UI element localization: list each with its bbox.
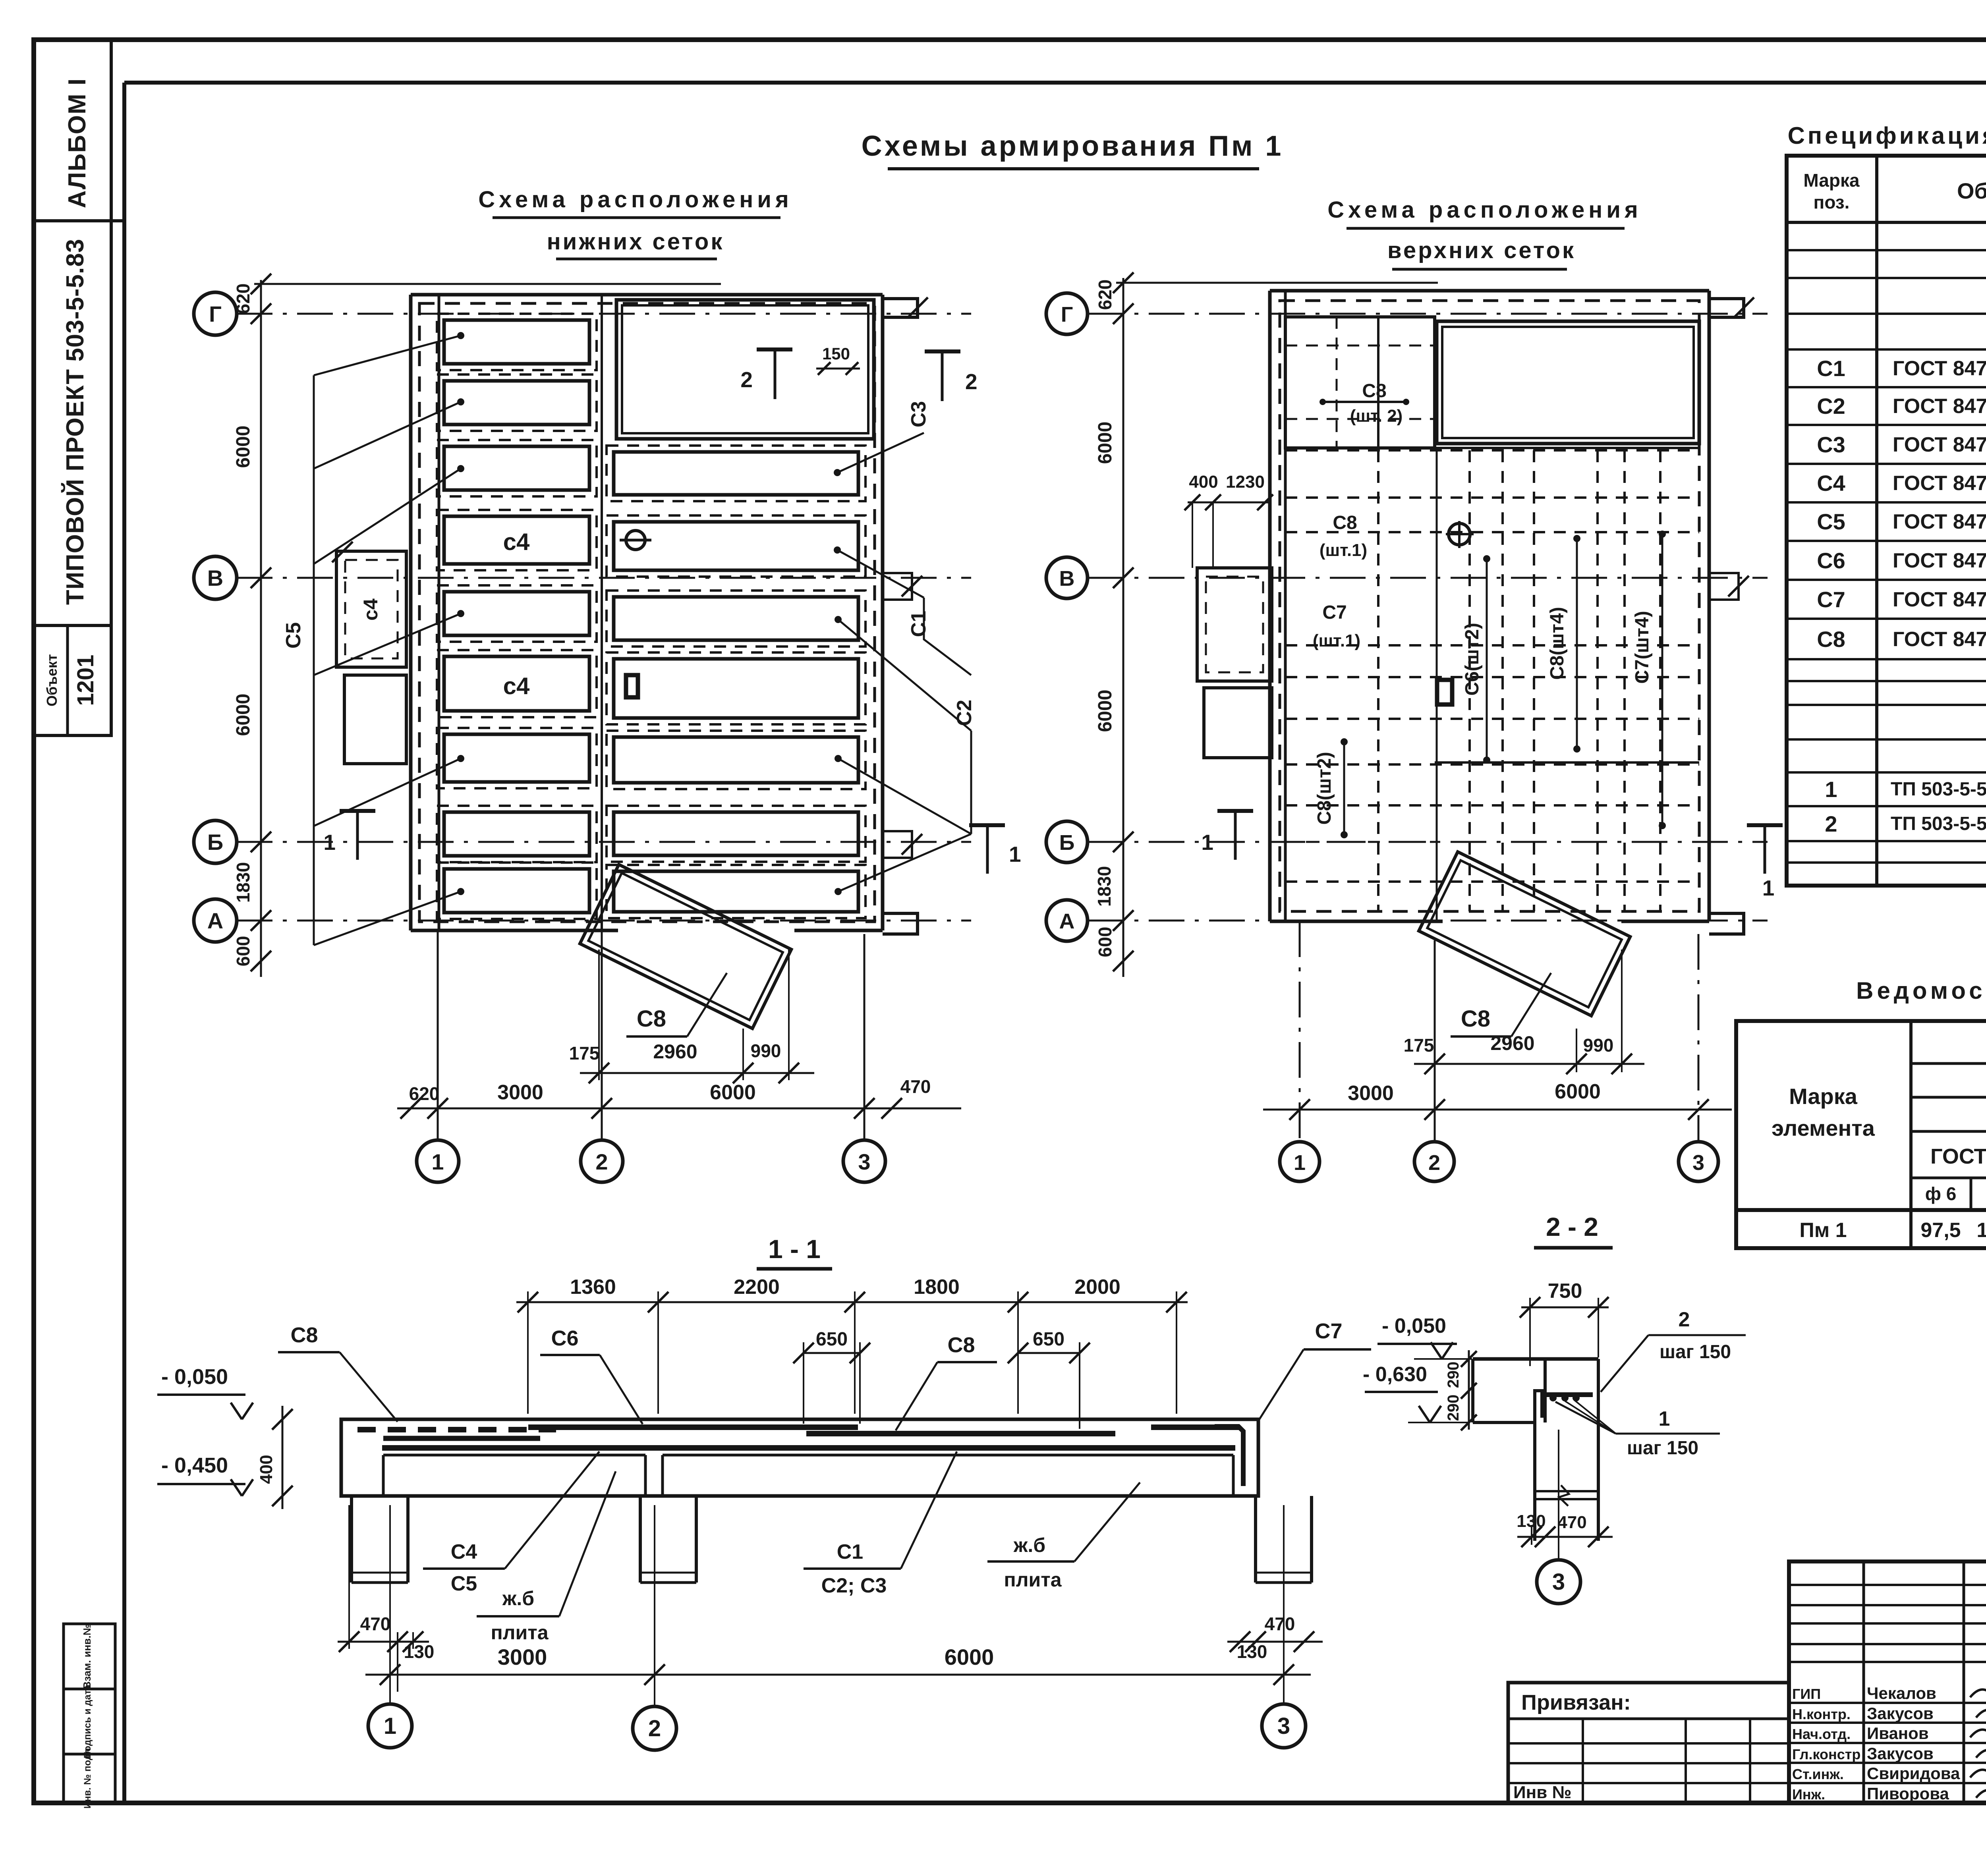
svg-text:290: 290 xyxy=(1445,1395,1462,1421)
dim 400 slab thickness xyxy=(282,1406,284,1509)
signature table columns xyxy=(1862,1561,1865,1803)
signature table bottom rows xyxy=(1789,1702,1986,1704)
right plan axis circle Б xyxy=(1046,821,1088,863)
leader C2 xyxy=(838,620,971,731)
right plan axis line Г xyxy=(1088,313,1768,315)
svg-text:С7: С7 xyxy=(1315,1319,1342,1343)
right plan axis line А xyxy=(1088,920,1768,922)
svg-text:ГИП: ГИП xyxy=(1792,1686,1821,1702)
divider album box xyxy=(34,219,124,222)
svg-text:поз.: поз. xyxy=(1814,192,1850,212)
left plan slab outline xyxy=(411,293,883,297)
wall notch (section 2-2) xyxy=(1535,1359,1545,1422)
bottom dimension line (left plan) xyxy=(397,1108,961,1110)
svg-text:С8: С8 xyxy=(1817,627,1845,652)
svg-text:С5: С5 xyxy=(1817,509,1845,534)
svg-text:1: 1 xyxy=(384,1713,396,1739)
svg-text:Марка: Марка xyxy=(1803,170,1860,191)
svg-text:1: 1 xyxy=(1294,1151,1306,1175)
right plan axis line Б xyxy=(1088,841,1768,843)
axis line 1 (section) xyxy=(389,1505,391,1704)
svg-text:1830: 1830 xyxy=(1094,866,1115,907)
svg-text:С1: С1 xyxy=(907,611,930,637)
mesh in notch (section 2-2) xyxy=(1540,1392,1593,1397)
svg-text:Ведомость расхода стали на эле: Ведомость расхода стали на элемент, кг xyxy=(1856,977,1986,1004)
steel table outer box xyxy=(1736,1021,1986,1248)
svg-text:6000: 6000 xyxy=(1555,1080,1601,1103)
left plan axis line А xyxy=(237,920,971,922)
stamp box vzam inv xyxy=(64,1624,115,1689)
svg-text:600: 600 xyxy=(1095,927,1115,957)
dim 290 290 (section 2-2) xyxy=(1468,1350,1470,1430)
svg-text:1360: 1360 xyxy=(570,1276,616,1299)
svg-text:130: 130 xyxy=(1237,1641,1267,1662)
svg-text:ГОСТ 8478- 81: ГОСТ 8478- 81 xyxy=(1893,395,1986,418)
svg-text:Инв. № подл: Инв. № подл xyxy=(82,1748,93,1809)
svg-text:2: 2 xyxy=(740,367,753,392)
svg-text:3: 3 xyxy=(1277,1713,1290,1739)
svg-text:620: 620 xyxy=(233,284,253,314)
svg-text:Пиворова: Пиворова xyxy=(1867,1784,1949,1803)
svg-text:С7: С7 xyxy=(1817,587,1845,612)
svg-text:С4: С4 xyxy=(451,1540,477,1563)
steel table phi column lines xyxy=(1970,1178,1972,1210)
svg-text:3000: 3000 xyxy=(497,1081,543,1104)
axis circle 3 (section 1-1) xyxy=(1262,1704,1306,1748)
dim 650 left (section) xyxy=(804,1352,860,1354)
svg-text:Марка: Марка xyxy=(1789,1084,1858,1109)
axis circle 2 (section 1-1) xyxy=(633,1706,676,1750)
spec table row lines xyxy=(1787,249,1986,251)
strip boundary line (right plan) xyxy=(1436,450,1438,921)
svg-text:верхних сеток: верхних сеток xyxy=(1387,237,1576,263)
dim line 175-2960-990 (left plan) xyxy=(580,1072,814,1074)
svg-text:Гл.констр: Гл.констр xyxy=(1792,1746,1860,1762)
right plan inner dashed contour xyxy=(1280,301,1699,911)
lower mesh rect left row 9 xyxy=(444,869,589,913)
bar with dots top xyxy=(1323,401,1406,403)
svg-text:Схема расположения: Схема расположения xyxy=(1327,197,1642,223)
spec table header bottom line xyxy=(1787,221,1986,224)
svg-text:Схема расположения: Схема расположения xyxy=(478,187,793,212)
right plan vertical dimension line xyxy=(1122,278,1124,977)
svg-text:С8: С8 xyxy=(947,1333,975,1357)
svg-text:6000: 6000 xyxy=(710,1081,756,1104)
svg-text:ТП 503-5-5.83: ТП 503-5-5.83 xyxy=(1891,813,1986,834)
large panel top right (opening) xyxy=(616,300,874,439)
leader C1 xyxy=(924,598,971,675)
stamp box inv no podl xyxy=(64,1754,115,1803)
top-left mesh block (C8 zone) xyxy=(1285,317,1435,448)
axis extension 2 (right plan) xyxy=(1434,940,1436,1142)
svg-text:2: 2 xyxy=(1825,811,1837,836)
svg-text:1 - 1: 1 - 1 xyxy=(768,1234,821,1264)
svg-text:2: 2 xyxy=(648,1716,661,1741)
svg-text:6000: 6000 xyxy=(945,1644,994,1669)
signature table empty rows xyxy=(1789,1584,1986,1586)
svg-text:650: 650 xyxy=(1033,1329,1064,1350)
svg-text:ГОСТ 8478- 81: ГОСТ 8478- 81 xyxy=(1893,357,1986,380)
svg-text:ГОСТ 8478- 81: ГОСТ 8478- 81 xyxy=(1893,588,1986,611)
svg-text:С3: С3 xyxy=(907,401,930,427)
axis circle 3 (right plan) xyxy=(1679,1142,1718,1181)
svg-text:С7(шт4): С7(шт4) xyxy=(1632,611,1653,684)
svg-text:6000: 6000 xyxy=(233,694,254,736)
protrusion box lower xyxy=(344,675,406,764)
leader spine C5 xyxy=(313,375,315,945)
svg-text:1800: 1800 xyxy=(914,1276,960,1299)
svg-text:130: 130 xyxy=(404,1641,435,1662)
svg-text:С8: С8 xyxy=(1461,1006,1490,1032)
slab inner ledge lines xyxy=(383,1454,645,1457)
left plan axis circle В xyxy=(194,556,237,599)
edge tick top right (right plan) xyxy=(1733,297,1754,318)
svg-text:650: 650 xyxy=(816,1329,848,1350)
left plan inner dashed contour xyxy=(419,303,875,922)
left plan edge strip line xyxy=(438,295,440,930)
svg-text:ГОСТ 8478- 81: ГОСТ 8478- 81 xyxy=(1893,628,1986,651)
left plan axis line Б xyxy=(237,841,971,843)
axis extension 2 (left plan) xyxy=(601,930,603,1139)
section mark 1 right (right plan) xyxy=(1747,823,1783,827)
lower mesh rect right row 5 xyxy=(614,659,858,718)
svg-text:С2: С2 xyxy=(953,700,976,726)
lower mesh rect left row 6 xyxy=(444,656,589,711)
spec table outer box xyxy=(1787,156,1986,886)
svg-text:115,2: 115,2 xyxy=(1976,1219,1986,1242)
dim line 175-2960-990 (right plan) xyxy=(1414,1063,1644,1065)
left plan axis circle Г xyxy=(194,292,237,335)
edge stub at B level xyxy=(883,573,912,600)
axis circle 1 (right plan) xyxy=(1280,1142,1319,1181)
left plan axis line Г xyxy=(237,313,971,315)
svg-text:ГОСТ 8478- 81: ГОСТ 8478- 81 xyxy=(1893,472,1986,495)
axis circle 3 (left plan) xyxy=(843,1140,885,1182)
top mesh bar C6 xyxy=(528,1424,858,1430)
bent bar C7 right end xyxy=(1215,1426,1243,1486)
svg-text:ж.б: ж.б xyxy=(1013,1534,1045,1556)
svg-text:1: 1 xyxy=(431,1149,444,1174)
axis extension 3 (right plan) xyxy=(1698,934,1700,1142)
svg-text:400: 400 xyxy=(1189,472,1218,492)
svg-text:175: 175 xyxy=(569,1043,600,1063)
svg-text:АЛЬБОМ I: АЛЬБОМ I xyxy=(64,78,91,208)
section mark 2 right xyxy=(925,349,960,353)
protrusion tick xyxy=(332,542,353,562)
inner drawing frame xyxy=(124,81,1986,85)
section mark 1 left (right plan) xyxy=(1217,809,1253,813)
svg-text:(шт.1): (шт.1) xyxy=(1319,540,1367,560)
svg-text:Инж.: Инж. xyxy=(1792,1786,1825,1803)
left plan top right tab xyxy=(883,299,918,317)
column 2 (section) xyxy=(639,1496,642,1583)
mesh leader C7 (sht4) xyxy=(1661,534,1663,826)
svg-text:С6(шт2): С6(шт2) xyxy=(1462,623,1483,696)
dim 470 130 left (section) xyxy=(338,1641,429,1643)
svg-text:(шт. 2): (шт. 2) xyxy=(1350,406,1403,426)
svg-text:С1: С1 xyxy=(1817,356,1845,381)
svg-text:1: 1 xyxy=(1201,830,1213,855)
svg-text:нижних сеток: нижних сеток xyxy=(547,229,724,255)
svg-text:2: 2 xyxy=(1428,1151,1440,1175)
edge stub at B level (right plan) xyxy=(1709,573,1739,600)
right plan edge strip line xyxy=(1284,291,1287,921)
svg-text:Пм 1: Пм 1 xyxy=(1799,1219,1847,1242)
lower mesh rect left row 1 xyxy=(444,320,589,364)
svg-text:- 0,630: - 0,630 xyxy=(1363,1363,1427,1386)
svg-text:С2: С2 xyxy=(1817,394,1845,419)
interior solid partials xyxy=(1285,447,1699,449)
lower mesh rect left row 7 xyxy=(444,734,589,782)
left plan bottom right tab xyxy=(883,913,918,934)
svg-text:В: В xyxy=(207,566,223,591)
svg-text:Иванов: Иванов xyxy=(1867,1724,1929,1743)
svg-text:С8(шт4): С8(шт4) xyxy=(1547,607,1568,680)
svg-text:Ст.инж.: Ст.инж. xyxy=(1792,1766,1844,1782)
lower mesh rect right row 4 xyxy=(614,597,858,640)
svg-text:Обозначение: Обозначение xyxy=(1957,178,1986,203)
svg-text:Г: Г xyxy=(1061,303,1073,326)
svg-text:620: 620 xyxy=(409,1083,440,1104)
privyazan block xyxy=(1508,1683,1789,1803)
svg-text:3: 3 xyxy=(1552,1569,1565,1595)
leader 1 shag 150 xyxy=(1555,1402,1616,1434)
interior dashed horizontals xyxy=(1285,449,1699,452)
left plan axis line В xyxy=(237,577,971,579)
leader line to left mesh 2 xyxy=(314,402,461,469)
section mark 1 right (left plan) xyxy=(969,823,1005,827)
svg-text:3: 3 xyxy=(1692,1151,1704,1175)
section mark 2 left xyxy=(757,347,792,351)
svg-text:2000: 2000 xyxy=(1074,1276,1121,1299)
svg-text:1: 1 xyxy=(1825,777,1837,802)
svg-text:ТП 503-5-5.83: ТП 503-5-5.83 xyxy=(1891,779,1986,800)
svg-text:470: 470 xyxy=(1265,1614,1295,1634)
svg-text:ГОСТ 8478- 81: ГОСТ 8478- 81 xyxy=(1893,549,1986,572)
bottom dimension line (right plan) xyxy=(1263,1109,1732,1111)
bottom mesh bar C1 xyxy=(382,1445,1235,1451)
svg-text:ф 6: ф 6 xyxy=(1925,1183,1957,1204)
left plan axis 2 line xyxy=(601,295,603,930)
svg-text:620: 620 xyxy=(1095,280,1115,310)
leader line to left mesh 6 xyxy=(314,892,461,945)
svg-text:- 0,050: - 0,050 xyxy=(161,1365,228,1389)
svg-text:С7: С7 xyxy=(1322,602,1347,623)
slab edge (section 2-2) xyxy=(1473,1357,1598,1361)
axis line 2 (section) xyxy=(654,1505,655,1706)
leader line to left mesh 3 xyxy=(314,469,461,564)
svg-text:2200: 2200 xyxy=(734,1276,780,1299)
right plan bottom right tab xyxy=(1709,913,1744,934)
svg-text:1: 1 xyxy=(1009,842,1021,867)
svg-text:2 - 2: 2 - 2 xyxy=(1546,1212,1598,1241)
column 1 (section) xyxy=(350,1496,353,1583)
right plan slab outline xyxy=(1270,289,1709,293)
svg-text:ГОСТ 5781- 82: ГОСТ 5781- 82 xyxy=(1930,1145,1986,1168)
svg-text:2960: 2960 xyxy=(653,1040,697,1063)
protrusion box upper (right plan) xyxy=(1197,568,1272,681)
svg-text:ГОСТ 8478- 81: ГОСТ 8478- 81 xyxy=(1893,510,1986,533)
svg-text:ТИПОВОЙ ПРОЕКТ 503-5-5.83: ТИПОВОЙ ПРОЕКТ 503-5-5.83 xyxy=(61,239,89,605)
right plan axis line В xyxy=(1088,577,1768,579)
svg-text:плита: плита xyxy=(491,1621,549,1644)
wall body (section 2-2) xyxy=(1544,1391,1547,1422)
lower mesh rect left row 2 xyxy=(444,381,589,425)
svg-text:6000: 6000 xyxy=(233,426,254,468)
axis circle 3 (section 2-2) xyxy=(1537,1560,1580,1604)
svg-text:1830: 1830 xyxy=(233,862,253,903)
svg-text:С8: С8 xyxy=(290,1323,318,1347)
axis extension 1 (left plan) xyxy=(437,930,439,1139)
lower mesh rect right row 8 xyxy=(614,871,858,912)
wall break mark xyxy=(1535,1490,1598,1492)
top mesh bar C8 right xyxy=(806,1431,1115,1436)
axis circle 2 (right plan) xyxy=(1414,1142,1454,1181)
tilted mesh C8 (left plan) xyxy=(580,865,791,1029)
leader line to left mesh 1 xyxy=(314,336,461,375)
svg-text:Взам. инв.№: Взам. инв.№ xyxy=(81,1624,93,1689)
svg-text:Н.контр.: Н.контр. xyxy=(1792,1706,1851,1722)
svg-text:Свиридова: Свиридова xyxy=(1867,1764,1960,1783)
svg-text:С5: С5 xyxy=(451,1572,477,1595)
svg-text:290: 290 xyxy=(1445,1362,1462,1388)
symbol circle with line xyxy=(626,531,645,550)
svg-text:1: 1 xyxy=(1762,876,1775,900)
svg-text:Инв №: Инв № xyxy=(1513,1783,1572,1802)
dim 130 470 (section 2-2) xyxy=(1517,1536,1613,1538)
lower mesh rect left row 8 xyxy=(444,812,589,856)
svg-text:шаг 150: шаг 150 xyxy=(1627,1438,1698,1459)
axis extension 1 (right plan) xyxy=(1299,921,1301,1141)
svg-text:2: 2 xyxy=(1679,1308,1690,1331)
svg-text:С4: С4 xyxy=(1817,471,1845,496)
svg-text:3000: 3000 xyxy=(1348,1082,1394,1105)
svg-text:6000: 6000 xyxy=(1095,422,1116,464)
svg-text:1: 1 xyxy=(1659,1407,1670,1430)
left plan axis circle А xyxy=(194,899,237,942)
edge tick top right xyxy=(907,297,928,318)
lower mesh rect right row 7 xyxy=(614,812,858,855)
axis circle 2 (left plan) xyxy=(581,1140,623,1182)
svg-text:ж.б: ж.б xyxy=(502,1587,534,1610)
right plan top right tab xyxy=(1709,299,1744,317)
mesh leader C6 (sht2) xyxy=(1486,559,1488,760)
svg-text:- 0,450: - 0,450 xyxy=(161,1453,228,1477)
svg-text:Спецификация к схемам армирова: Спецификация к схемам армирования плиты … xyxy=(1788,122,1986,149)
svg-text:ГОСТ 8478- 81: ГОСТ 8478- 81 xyxy=(1893,433,1986,456)
svg-text:Закусов: Закусов xyxy=(1867,1744,1934,1763)
svg-text:470: 470 xyxy=(900,1076,931,1097)
svg-text:С1: С1 xyxy=(837,1540,863,1563)
svg-text:с4: с4 xyxy=(359,598,382,621)
svg-text:Привязан:: Привязан: xyxy=(1521,1691,1631,1714)
interior dashed verticals xyxy=(1377,450,1379,911)
svg-text:(шт.1): (шт.1) xyxy=(1313,631,1360,650)
svg-text:С8(шт2): С8(шт2) xyxy=(1314,752,1335,825)
left plan vertical dimension line xyxy=(260,280,262,977)
svg-text:Закусов: Закусов xyxy=(1867,1704,1934,1723)
spec table column lines xyxy=(1875,156,1878,886)
symbol circle cross xyxy=(1449,523,1470,545)
svg-text:6000: 6000 xyxy=(1095,690,1116,732)
title block outer box xyxy=(1789,1561,1986,1803)
leader line to left mesh 4 xyxy=(314,614,461,675)
steel table header lines xyxy=(1911,1062,1986,1065)
left stamp column edge xyxy=(110,40,113,735)
svg-text:Г: Г xyxy=(209,301,222,326)
left plan axis circle Б xyxy=(194,820,237,863)
lower mesh rect left row 4 xyxy=(444,516,589,564)
slab body (section 1-1) xyxy=(341,1419,1258,1496)
object box xyxy=(34,625,111,735)
lower mesh rect left row 3 xyxy=(444,446,589,490)
leader C3 xyxy=(837,433,924,473)
svg-text:97,5: 97,5 xyxy=(1920,1219,1961,1242)
axis extension 3 (left plan) xyxy=(864,934,865,1139)
axis circle 1 (section 1-1) xyxy=(368,1704,412,1748)
svg-text:2: 2 xyxy=(595,1149,608,1174)
steel table marka column xyxy=(1909,1021,1913,1248)
axis line 3 (section 2-2) xyxy=(1558,1430,1559,1560)
svg-text:1: 1 xyxy=(323,830,336,855)
svg-text:470: 470 xyxy=(1557,1513,1586,1532)
mesh leader C8 (sht4) xyxy=(1576,538,1578,749)
svg-text:470: 470 xyxy=(360,1614,391,1634)
svg-text:Схемы армирования Пм 1: Схемы армирования Пм 1 xyxy=(862,130,1284,162)
svg-text:С8: С8 xyxy=(1333,512,1357,533)
svg-text:Б: Б xyxy=(1059,831,1075,855)
svg-text:150: 150 xyxy=(822,344,850,363)
svg-text:2960: 2960 xyxy=(1490,1032,1534,1054)
right plan axis circle Г xyxy=(1046,293,1088,334)
svg-text:с4: с4 xyxy=(503,673,530,699)
svg-text:В: В xyxy=(1059,567,1075,591)
leader 2 shag 150 xyxy=(1601,1335,1648,1392)
svg-text:А: А xyxy=(207,908,223,933)
privyazan grid xyxy=(1508,1742,1789,1745)
svg-text:С8: С8 xyxy=(637,1006,666,1032)
svg-text:С6: С6 xyxy=(551,1326,578,1350)
section 1-1 top dimension line xyxy=(516,1301,1188,1303)
svg-text:1230: 1230 xyxy=(1226,472,1265,492)
axis line 3 (section) xyxy=(1283,1505,1285,1704)
svg-text:шаг 150: шаг 150 xyxy=(1660,1341,1731,1363)
svg-text:175: 175 xyxy=(1404,1035,1434,1056)
mesh leader C8 (sht2) bottom xyxy=(1343,742,1345,835)
right plan axis circle А xyxy=(1046,900,1088,941)
protrusion box C4 upper xyxy=(336,551,406,667)
svg-text:Объект: Объект xyxy=(44,654,60,706)
right plan axis circle В xyxy=(1046,557,1088,598)
bottom dimension line (section 1-1) xyxy=(365,1674,1311,1676)
svg-text:3: 3 xyxy=(858,1149,870,1174)
svg-text:плита: плита xyxy=(1004,1569,1062,1591)
top mesh bar C8 left (dashed thick) xyxy=(357,1427,556,1432)
tilted mesh C8 (right plan) xyxy=(1419,852,1630,1016)
left plan top extension line xyxy=(254,283,721,285)
svg-text:990: 990 xyxy=(751,1040,781,1061)
top mesh bar left solid xyxy=(383,1436,540,1441)
svg-text:Нач.отд.: Нач.отд. xyxy=(1792,1726,1851,1742)
svg-text:с4: с4 xyxy=(503,529,530,555)
lower mesh rect right row 2 xyxy=(614,452,858,495)
svg-text:3000: 3000 xyxy=(498,1644,547,1669)
svg-text:750: 750 xyxy=(1548,1280,1582,1303)
dim 650 right (section) xyxy=(1018,1352,1080,1354)
top mesh bar right end xyxy=(1151,1424,1239,1430)
svg-text:2: 2 xyxy=(965,369,978,394)
axis circle 1 (left plan) xyxy=(417,1140,459,1182)
